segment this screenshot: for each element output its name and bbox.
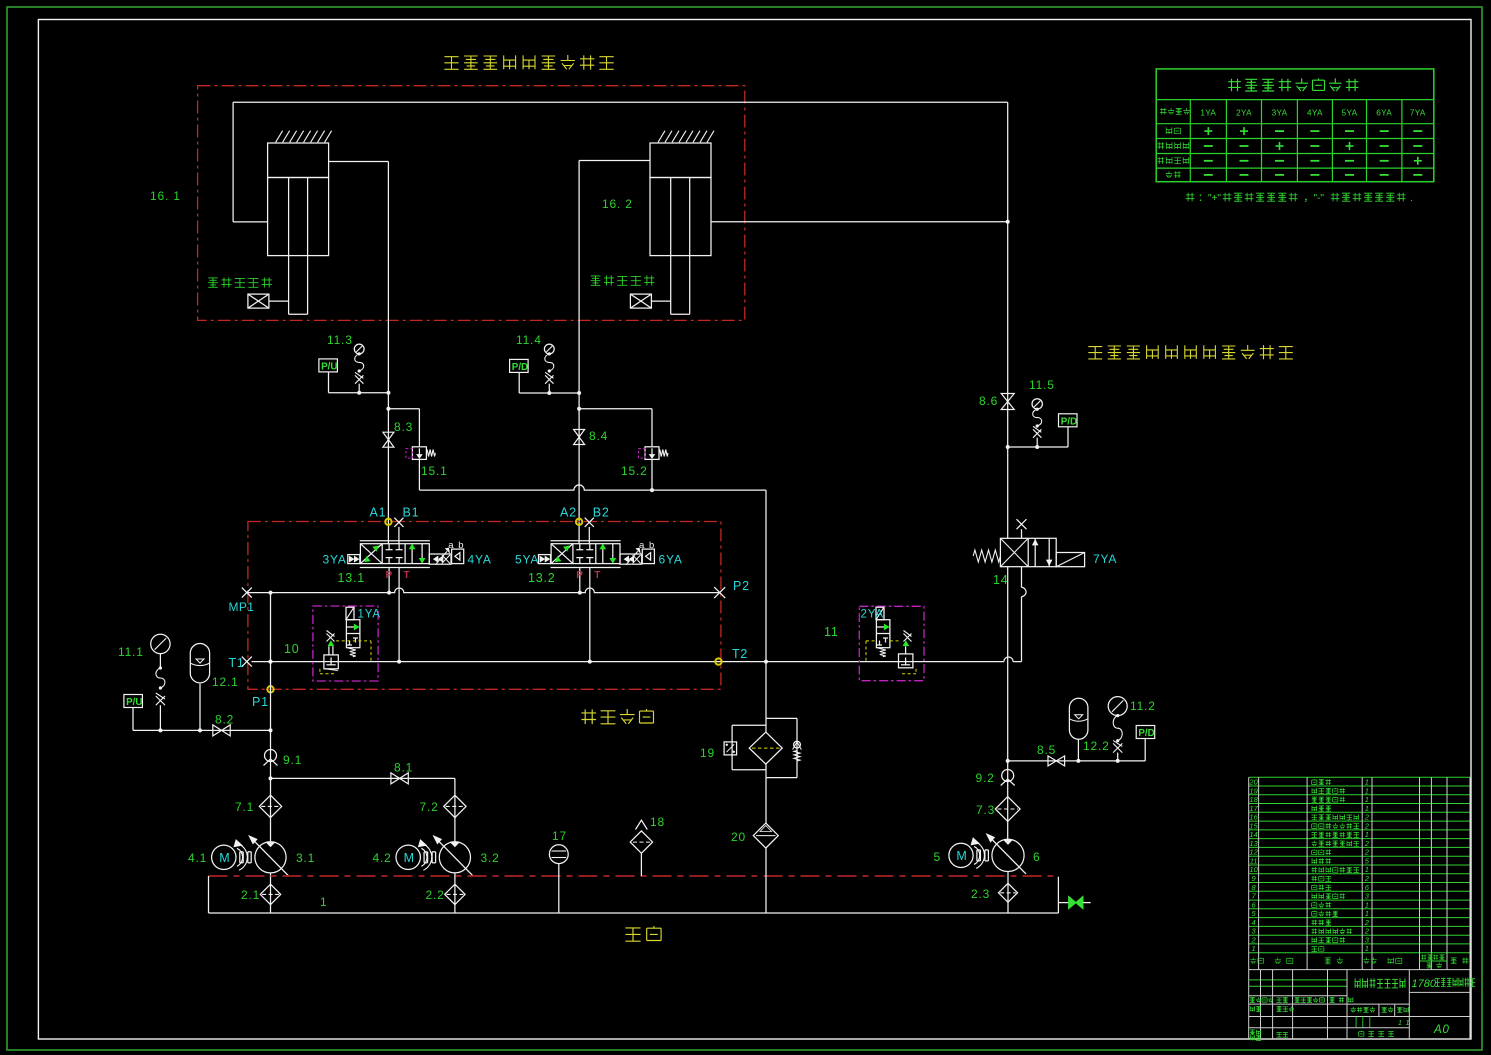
hose + shutoff for gauge 11.3 — [355, 352, 364, 392]
wire: cylinder 16.2 right port to return bus — [711, 221, 1008, 223]
svg-text:17: 17 — [1249, 804, 1258, 813]
label 5 — [934, 850, 941, 864]
svg-text:3.2: 3.2 — [481, 851, 500, 865]
accumulator 12.2 — [1069, 698, 1088, 761]
label 16.1 — [150, 189, 181, 203]
wire: gauge manifold to P1 line — [133, 728, 273, 732]
port MP1 — [242, 588, 252, 598]
svg-text:1: 1 — [1365, 778, 1369, 787]
label 9.1 — [283, 753, 302, 767]
svg-text:5YA: 5YA — [515, 553, 539, 567]
svg-text:8.4: 8.4 — [589, 429, 608, 443]
svg-text:6YA: 6YA — [659, 553, 683, 567]
label 12.2 — [1083, 739, 1110, 753]
port P1 (gold) — [267, 686, 273, 692]
svg-text:1: 1 — [320, 895, 327, 909]
svg-text:2YA: 2YA — [1236, 109, 1252, 118]
svg-text:8.6: 8.6 — [979, 394, 998, 408]
label 4.2 — [373, 851, 392, 865]
svg-text:15: 15 — [1249, 821, 1258, 830]
wire: inter-pump branch with valve 8.1 — [269, 776, 455, 841]
svg-text:1: 1 — [1365, 830, 1369, 839]
svg-text:10: 10 — [284, 642, 300, 656]
svg-text:7.1: 7.1 — [235, 800, 254, 814]
svg-text:12.2: 12.2 — [1083, 739, 1110, 753]
svg-text:2: 2 — [1364, 813, 1370, 822]
port B1 (plugged) — [394, 518, 403, 544]
T1 return rail — [252, 657, 1022, 664]
svg-text:20: 20 — [731, 830, 746, 844]
pressure gauge 11.3 — [354, 344, 364, 354]
port P2 — [714, 587, 725, 598]
label 14 — [993, 573, 1009, 587]
svg-text:2: 2 — [1364, 918, 1370, 927]
svg-text:T: T — [404, 570, 411, 581]
svg-text:8.5: 8.5 — [1037, 743, 1056, 757]
svg-text:19: 19 — [1249, 786, 1258, 795]
title: press-down control system (top) — [444, 55, 613, 70]
label 10 — [284, 642, 300, 656]
label 19 — [700, 746, 715, 760]
svg-text:1YA: 1YA — [358, 609, 381, 621]
svg-text:1: 1 — [1365, 795, 1369, 804]
svg-text:1: 1 — [1365, 865, 1369, 874]
circulating motor 5 — [949, 838, 989, 869]
check valve 9.2 — [1001, 770, 1015, 786]
label 8.6 — [979, 394, 998, 408]
label 3.2 — [481, 851, 500, 865]
svg-text:15.1: 15.1 — [421, 464, 448, 478]
svg-text:T: T — [594, 570, 601, 581]
wire: right return bus (vertical) — [1006, 102, 1010, 538]
svg-text:P2: P2 — [733, 579, 750, 593]
svg-text:P: P — [386, 570, 393, 581]
svg-text:11.1: 11.1 — [118, 645, 144, 659]
labels A1 B1 A2 B2 — [370, 506, 610, 520]
svg-text:1: 1 — [1365, 900, 1369, 909]
svg-text:11.4: 11.4 — [516, 333, 542, 347]
svg-text:7YA: 7YA — [1410, 109, 1426, 118]
svg-text:4: 4 — [1252, 918, 1256, 927]
svg-text:2.1: 2.1 — [241, 888, 260, 902]
label 7.2 — [420, 800, 439, 814]
circulating pump 6 — [987, 834, 1027, 874]
label 11 — [824, 625, 839, 639]
wire: gauge 11.3 tap — [329, 391, 391, 395]
P/D transducer (11.2) — [1136, 726, 1155, 761]
label displacement sensor (16.1) — [208, 278, 272, 288]
red dashed boundary: cylinder group 16 — [198, 86, 745, 321]
label 2YA — [861, 609, 884, 621]
wire: valve 14 tank drop with crossover hop — [1022, 567, 1027, 662]
hose + shutoff for gauge 11.2 — [1113, 714, 1122, 761]
svg-text:2.3: 2.3 — [971, 887, 990, 901]
table note — [1186, 193, 1414, 204]
svg-text:2: 2 — [1364, 848, 1370, 857]
svg-text:4YA: 4YA — [468, 553, 492, 567]
label 8.5 — [1037, 743, 1056, 757]
svg-text:8.2: 8.2 — [215, 713, 234, 727]
port T2 (gold) — [715, 658, 721, 664]
svg-text:P/U: P/U — [126, 697, 142, 708]
magenta boundary: cartridge valve 11 — [859, 606, 924, 680]
label 7.1 — [235, 800, 254, 814]
svg-text:11.3: 11.3 — [327, 333, 353, 347]
hose + shutoff for gauge 11.4 — [545, 352, 554, 393]
wire: gauge 11.4 tap — [519, 391, 581, 395]
wire: cylinder 16.2 A2 drop line — [579, 161, 650, 544]
svg-text:5YA: 5YA — [1342, 109, 1358, 118]
port B2 (plugged) — [585, 518, 594, 544]
label: oil tank — [625, 926, 661, 941]
svg-text:1 1: 1 1 — [1398, 1020, 1410, 1027]
svg-text:1: 1 — [1365, 909, 1369, 918]
svg-text:4.1: 4.1 — [188, 851, 207, 865]
svg-text:B1: B1 — [403, 506, 420, 520]
svg-text:1780: 1780 — [1412, 978, 1437, 990]
svg-text:18: 18 — [1249, 795, 1258, 804]
svg-text:B2: B2 — [593, 506, 610, 520]
shutoff valve 8.2 — [213, 725, 230, 736]
P/D transducer (11.5) — [1059, 414, 1078, 447]
cylinder 16.1 — [248, 131, 332, 315]
magenta boundary: unloader cartridge 10 — [313, 606, 378, 681]
svg-text:6: 6 — [1033, 850, 1040, 864]
svg-text:7.2: 7.2 — [420, 800, 439, 814]
svg-text:2YA: 2YA — [861, 609, 884, 621]
red dashed boundary: main manifold block — [248, 522, 721, 690]
label 11.5 — [1029, 378, 1055, 392]
solenoid directional valve 14 (7YA) — [973, 519, 1084, 567]
svg-text:M: M — [219, 851, 229, 865]
svg-text:13.2: 13.2 — [528, 571, 556, 585]
svg-text:14: 14 — [1249, 830, 1257, 839]
svg-text:P/D: P/D — [1138, 728, 1154, 739]
wire: pump 6 feed through T2 rail crossover — [1007, 567, 1009, 841]
hp filter 7.3 — [995, 797, 1020, 822]
wire: rod-side bus from cylinder 16.1 to right return bus — [233, 102, 1008, 222]
suction filter 2.2 — [445, 884, 465, 904]
pilot lines (yellow) of valve 11 — [866, 641, 916, 674]
svg-text:9.1: 9.1 — [283, 753, 302, 767]
label 11.4 — [516, 333, 542, 347]
svg-text:12: 12 — [1249, 848, 1258, 857]
hose + shutoff for gauge 11.5 — [1033, 408, 1042, 447]
label 18 — [650, 815, 665, 829]
return filter 20 — [753, 823, 778, 913]
label displacement sensor (16.2) — [591, 276, 655, 286]
svg-text:17: 17 — [552, 829, 567, 843]
title: press-down return control system (right) — [1088, 345, 1293, 359]
port T1 — [242, 657, 252, 667]
label 11.1 — [118, 645, 144, 659]
label 1 (tank line) — [320, 895, 327, 909]
svg-text:A1: A1 — [370, 506, 387, 520]
solenoid action cycle table — [1156, 69, 1434, 182]
pressure gauge 11.4 — [544, 344, 554, 354]
pilot solenoid valve 2YA (cartridge 11) — [876, 607, 890, 657]
check valve 9.1 — [264, 750, 278, 766]
label 7.3 — [976, 803, 995, 817]
tank line — [209, 876, 1059, 913]
svg-text:M: M — [404, 851, 414, 865]
svg-text:10: 10 — [1249, 865, 1258, 874]
label 8.3 — [394, 420, 413, 434]
hp filter 7.2 — [444, 795, 466, 817]
pilot relief valve 15.2 — [577, 407, 668, 490]
svg-text:1: 1 — [1365, 804, 1369, 813]
wire: gauge 11.5 tap — [1006, 445, 1068, 449]
wire: P1 supply line — [269, 593, 273, 842]
red dashed pump-station boundary line — [209, 875, 1059, 877]
P2 pressure rail — [247, 588, 720, 595]
label 8.2 — [215, 713, 234, 727]
port A2 (gold) — [576, 519, 582, 525]
svg-text:P1: P1 — [252, 695, 269, 709]
svg-text:1: 1 — [1365, 944, 1369, 953]
label: main manifold block — [581, 709, 653, 724]
hose + shutoff for gauge 11.1 — [156, 654, 165, 731]
accumulator 12.1 — [190, 643, 209, 730]
svg-text:4YA: 4YA — [1307, 109, 1323, 118]
svg-text:2: 2 — [1364, 821, 1370, 830]
label 3.1 — [296, 851, 315, 865]
svg-text:8.1: 8.1 — [394, 761, 413, 775]
label 4.1 — [188, 851, 207, 865]
air breather 18 — [630, 820, 652, 876]
label 6 — [1033, 850, 1040, 864]
svg-text:3YA: 3YA — [1272, 109, 1288, 118]
labels for valve 13.2 — [515, 540, 683, 585]
svg-text:2: 2 — [1364, 927, 1370, 936]
cartridge poppet (10) — [324, 631, 338, 671]
label 11.2 — [1130, 699, 1156, 713]
wire: pump suction drops — [271, 872, 1009, 914]
svg-text:8.3: 8.3 — [394, 420, 413, 434]
svg-text:2: 2 — [1364, 874, 1370, 883]
label 9.2 — [976, 771, 995, 785]
svg-text:12.1: 12.1 — [212, 675, 239, 689]
svg-text:14: 14 — [993, 573, 1009, 587]
svg-text:P: P — [576, 570, 583, 581]
cartridge poppet (11) — [899, 631, 913, 668]
BOM parts table — [1248, 777, 1470, 969]
svg-text:7YA: 7YA — [1093, 552, 1117, 566]
svg-text:3.1: 3.1 — [296, 851, 315, 865]
proportional directional valve 13.2 — [539, 541, 655, 662]
svg-text:16. 2: 16. 2 — [602, 197, 633, 211]
svg-text:："+": ："+" — [1198, 193, 1221, 204]
port A1 (gold) — [385, 519, 391, 525]
label 20 — [731, 830, 746, 844]
svg-text:2: 2 — [1251, 936, 1257, 945]
shutoff valve 8.3 — [383, 432, 394, 447]
label 8.4 — [589, 429, 608, 443]
svg-text:2.2: 2.2 — [426, 888, 445, 902]
svg-text:5: 5 — [934, 850, 941, 864]
svg-text:M: M — [956, 849, 966, 863]
svg-text:1YA: 1YA — [1200, 109, 1216, 118]
svg-text:a: a — [639, 540, 645, 551]
svg-text:11.2: 11.2 — [1130, 699, 1156, 713]
pilot lines (yellow) of valve 10 — [320, 641, 371, 674]
return filter 19 with clogging indicator and bypass — [724, 662, 801, 824]
svg-text:11: 11 — [1250, 857, 1258, 866]
svg-text:16: 16 — [1249, 813, 1258, 822]
shutoff valve 8.6 — [1001, 394, 1014, 410]
svg-text:，"-": ，"-" — [1304, 193, 1325, 204]
svg-text:P/D: P/D — [512, 362, 528, 373]
svg-text:18: 18 — [650, 815, 665, 829]
svg-text:11: 11 — [824, 625, 839, 639]
label 11.3 — [327, 333, 353, 347]
svg-text:15.2: 15.2 — [621, 464, 648, 478]
label 7YA — [1093, 552, 1117, 566]
wire: relief drain header to tank filter — [419, 485, 766, 662]
pilot relief valve 15.1 — [386, 407, 435, 490]
labels for valve 13.1 — [323, 540, 492, 585]
main motor 4.1 — [212, 840, 252, 871]
svg-text:1: 1 — [1365, 786, 1369, 795]
svg-text:A0: A0 — [1433, 1024, 1450, 1036]
title block — [1249, 970, 1476, 1041]
svg-text:19: 19 — [700, 746, 715, 760]
svg-text:11.5: 11.5 — [1029, 378, 1055, 392]
pilot solenoid valve 1YA (unloader 10) — [346, 607, 360, 657]
svg-text:16. 1: 16. 1 — [150, 189, 181, 203]
label 15.2 — [621, 464, 648, 478]
label 2.1 — [241, 888, 260, 902]
shutoff valve 8.5 — [1048, 756, 1065, 766]
svg-text:.: . — [1410, 193, 1414, 204]
P/D transducer (11.4) — [510, 359, 529, 393]
svg-text:4.2: 4.2 — [373, 851, 392, 865]
svg-text:A2: A2 — [560, 506, 577, 520]
svg-text:MP1: MP1 — [229, 600, 255, 614]
pressure gauge 11.1 — [151, 634, 170, 653]
manifold port labels — [229, 579, 750, 709]
svg-text:b: b — [649, 540, 655, 551]
shutoff valve 8.1 — [391, 773, 408, 784]
wire: cylinder 16.1 A1 drop line — [328, 162, 388, 544]
shutoff valve 8.4 — [574, 430, 585, 445]
pressure gauge 11.5 — [1032, 399, 1042, 409]
suction filter 2.3 — [999, 883, 1018, 902]
label 15.1 — [421, 464, 448, 478]
label 8.1 — [394, 761, 413, 775]
svg-text:13.1: 13.1 — [338, 571, 366, 585]
svg-text:20: 20 — [1248, 778, 1258, 787]
pressure gauge 11.2 — [1108, 697, 1127, 716]
P/U transducer (11.1) — [124, 695, 143, 731]
level gauge 17 — [549, 845, 568, 913]
svg-text:3YA: 3YA — [323, 553, 347, 567]
suction filter 2.1 — [260, 884, 280, 904]
proportional directional valve 13.1 — [348, 541, 464, 662]
svg-text:9.2: 9.2 — [976, 771, 995, 785]
cylinder 16.2 — [630, 131, 714, 315]
label 17 — [552, 829, 567, 843]
svg-text:b: b — [458, 540, 464, 551]
wire: pump 6 outlet header — [1006, 759, 1145, 763]
svg-text:P/D: P/D — [1061, 416, 1077, 427]
svg-text:6YA: 6YA — [1376, 109, 1392, 118]
hp filter 7.1 — [259, 795, 281, 817]
label 1YA — [358, 609, 381, 621]
main pump 3.2 (variable) — [433, 836, 473, 876]
label 2.2 — [426, 888, 445, 902]
svg-text:T1: T1 — [229, 656, 245, 670]
main motor 4.2 — [396, 840, 436, 871]
main pump 3.1 (variable) — [249, 836, 289, 876]
label 2.3 — [971, 887, 990, 901]
label 16.2 — [602, 197, 633, 211]
svg-text:2: 2 — [1364, 839, 1370, 848]
label 12.1 — [212, 675, 239, 689]
tank drain valve (green) — [1058, 897, 1090, 909]
svg-text:13: 13 — [1249, 839, 1258, 848]
P/U transducer (11.3) — [319, 359, 338, 393]
svg-text:P/U: P/U — [321, 362, 337, 373]
svg-text:1: 1 — [1252, 944, 1256, 953]
svg-text:T2: T2 — [732, 647, 748, 661]
svg-text:a: a — [448, 540, 454, 551]
svg-text:7.3: 7.3 — [976, 803, 995, 817]
